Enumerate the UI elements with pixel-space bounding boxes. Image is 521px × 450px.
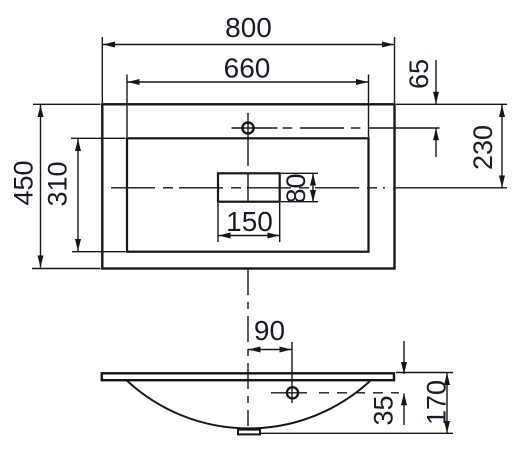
svg-text:90: 90 — [254, 315, 285, 346]
svg-text:800: 800 — [225, 12, 272, 43]
svg-text:310: 310 — [43, 161, 73, 206]
svg-text:230: 230 — [468, 125, 498, 170]
svg-text:660: 660 — [224, 53, 271, 84]
svg-text:35: 35 — [369, 395, 399, 425]
svg-text:150: 150 — [226, 206, 273, 237]
svg-text:65: 65 — [404, 59, 434, 89]
svg-text:450: 450 — [9, 160, 39, 205]
svg-text:170: 170 — [422, 380, 452, 425]
svg-text:80: 80 — [281, 173, 311, 203]
